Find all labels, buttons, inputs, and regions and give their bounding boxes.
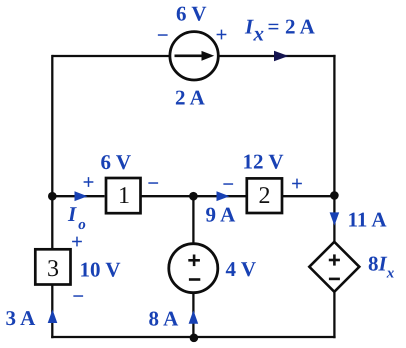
wire middle vertical lower	[192, 293, 194, 337]
arrowhead Io current	[75, 191, 88, 201]
wire middle row	[52, 195, 104, 197]
plus inside 4V source	[188, 255, 200, 267]
svg-text:+: +	[83, 170, 95, 194]
node D bottom	[190, 334, 199, 343]
box element 2	[247, 178, 282, 213]
current source U1 2A circle	[170, 32, 218, 80]
svg-text:=: =	[268, 15, 280, 39]
wire bottom segment	[51, 336, 335, 338]
svg-text:9 A: 9 A	[206, 203, 237, 227]
svg-text:12 V: 12 V	[243, 150, 284, 174]
node C right	[330, 191, 339, 200]
box element 3	[35, 249, 70, 284]
wire top-right segment	[220, 55, 336, 57]
svg-text:3 A: 3 A	[6, 306, 37, 330]
wire between box1 and box2	[142, 195, 246, 197]
svg-text:2 A: 2 A	[175, 86, 206, 110]
minus inside 4V source	[189, 278, 200, 281]
svg-text:−: −	[72, 284, 84, 308]
wire top-left segment	[52, 55, 169, 57]
svg-text:6 V: 6 V	[101, 150, 132, 174]
arrowhead 11A current	[330, 212, 340, 225]
wire left lower segment	[51, 286, 53, 339]
svg-text:−: −	[222, 172, 234, 196]
svg-text:6 V: 6 V	[176, 2, 207, 26]
arrowhead 8A current	[189, 310, 199, 324]
plus inside dependent source	[329, 254, 340, 265]
svg-text:x: x	[253, 22, 265, 46]
wire box2 to right node	[283, 195, 334, 197]
svg-text:8 A: 8 A	[149, 307, 180, 331]
svg-text:10 V: 10 V	[80, 258, 121, 282]
svg-text:+: +	[71, 230, 83, 254]
wire right upper segment	[333, 55, 335, 243]
svg-text:1: 1	[118, 183, 130, 209]
svg-text:I: I	[244, 15, 254, 39]
svg-text:4 V: 4 V	[226, 257, 257, 281]
arrowhead Ix on top wire	[274, 51, 289, 62]
svg-text:+: +	[291, 172, 303, 196]
node A left	[48, 192, 57, 201]
wire left upper segment	[51, 55, 53, 249]
node B middle	[189, 192, 198, 201]
box element 1	[106, 178, 141, 213]
wire right lower segment	[333, 292, 335, 339]
arrowhead 3A current	[48, 310, 58, 324]
minus inside dependent source	[329, 278, 340, 281]
svg-text:11 A: 11 A	[348, 208, 388, 232]
dependent source 8Ix diamond	[309, 242, 359, 292]
wire middle vertical upper	[192, 196, 194, 243]
voltage source 4V circle	[169, 244, 218, 293]
svg-text:+: +	[216, 23, 228, 47]
svg-text:−: −	[147, 171, 159, 195]
arrowhead 9A current	[217, 191, 230, 201]
svg-text:2: 2	[259, 183, 271, 209]
svg-text:−: −	[157, 23, 169, 47]
svg-text:2 A: 2 A	[285, 15, 316, 39]
current source U1 arrow	[175, 51, 215, 61]
svg-text:3: 3	[47, 256, 59, 282]
